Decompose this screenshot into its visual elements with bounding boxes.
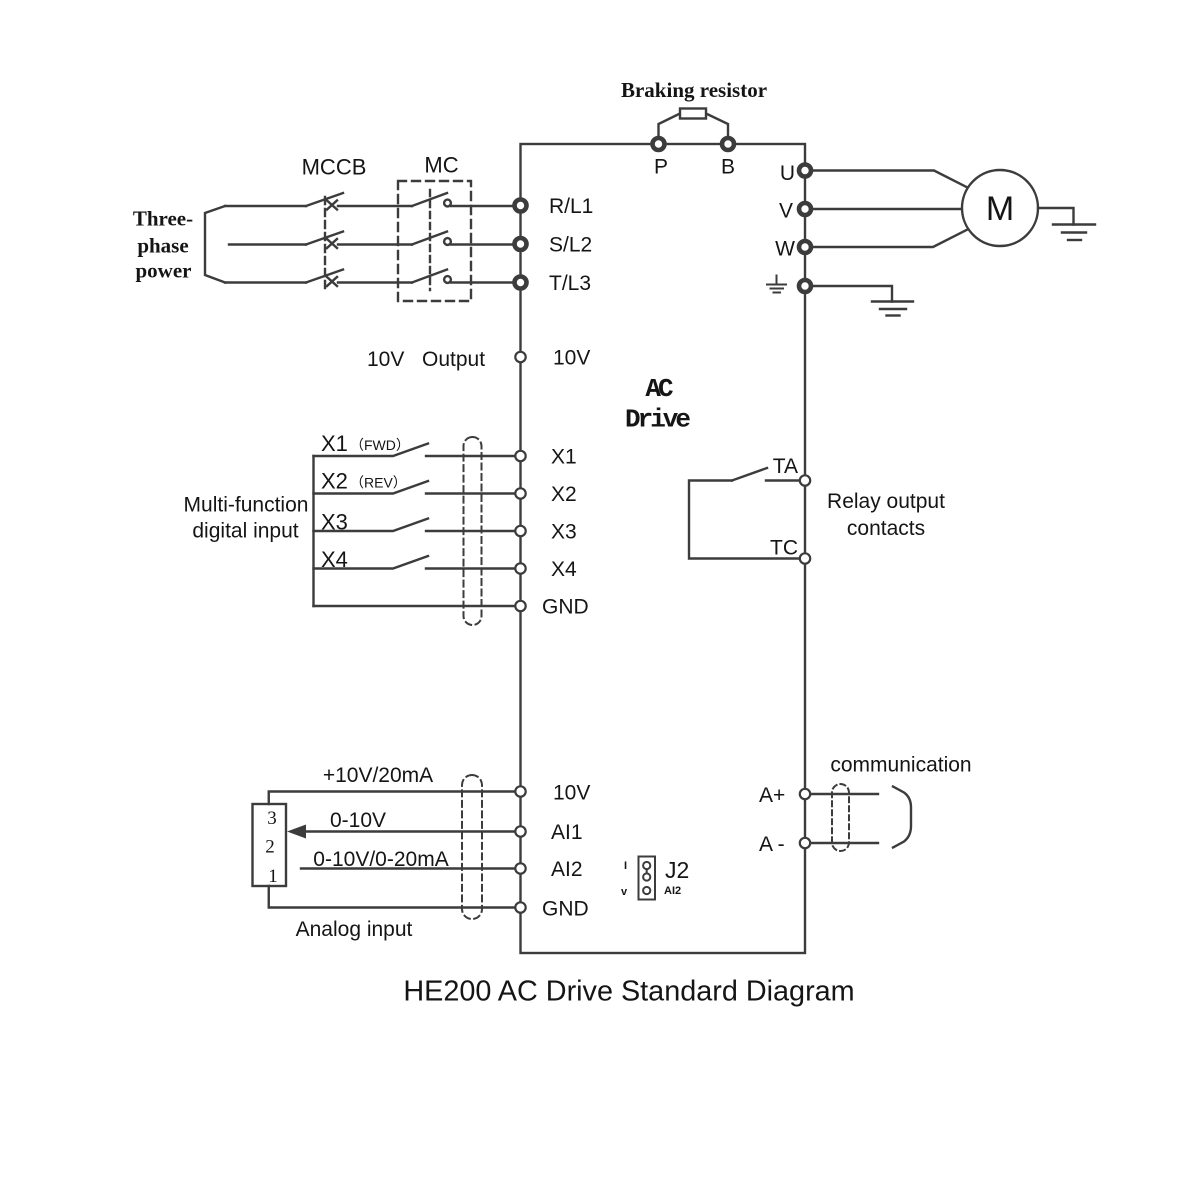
svg-text:T/L3: T/L3	[549, 272, 591, 295]
svg-text:0-10V: 0-10V	[330, 809, 386, 832]
svg-text:S/L2: S/L2	[549, 234, 592, 257]
svg-text:Braking resistor: Braking resistor	[621, 78, 767, 102]
terminal X3	[515, 526, 525, 536]
terminal X2	[515, 488, 525, 498]
terminal A+	[800, 789, 810, 799]
svg-text:I: I	[624, 860, 627, 872]
terminal TA	[800, 475, 810, 485]
svg-text:0-10V/0-20mA: 0-10V/0-20mA	[313, 848, 448, 871]
MC linkage dashed	[429, 190, 431, 290]
svg-text:digital input: digital input	[192, 520, 298, 543]
svg-text:Multi-function: Multi-function	[184, 494, 309, 517]
terminal X4	[515, 563, 525, 573]
svg-text:A -: A -	[759, 833, 785, 856]
svg-text:X4: X4	[551, 558, 577, 581]
potentiometer body	[253, 804, 287, 886]
svg-text:X3: X3	[321, 510, 348, 535]
wire A+	[811, 793, 878, 795]
terminal X1	[515, 451, 525, 461]
svg-text:X3: X3	[551, 521, 577, 544]
svg-text:A+: A+	[759, 784, 785, 807]
svg-text:contacts: contacts	[847, 517, 925, 540]
svg-text:（FWD）: （FWD）	[350, 437, 410, 453]
svg-text:X1: X1	[551, 446, 577, 469]
switch X4	[314, 556, 515, 569]
wire V output	[813, 208, 962, 210]
MCCB linkage dashed	[324, 197, 326, 290]
wire pot bottom to GND	[269, 886, 514, 908]
svg-text:HE200 AC Drive Standard Diagra: HE200 AC Drive Standard Diagram	[403, 976, 854, 1008]
svg-text:MCCB: MCCB	[302, 155, 367, 180]
wire GND digital	[314, 605, 515, 607]
relay loop	[689, 481, 799, 559]
terminal AI2	[515, 863, 525, 873]
svg-text:phase: phase	[137, 234, 188, 258]
svg-text:AI2: AI2	[664, 885, 681, 897]
svg-text:communication: communication	[830, 754, 971, 777]
wire W output	[813, 230, 968, 248]
svg-text:MC: MC	[424, 153, 458, 178]
terminal GND analog	[515, 902, 525, 912]
svg-text:B: B	[721, 156, 735, 179]
contactor MC box dashed	[398, 181, 471, 301]
resistor body	[680, 109, 706, 119]
arrowhead AI1	[287, 825, 306, 839]
contactor MC pole 2	[412, 232, 512, 245]
braking resistor loop	[659, 114, 729, 138]
terminal V	[799, 203, 811, 215]
svg-text:2: 2	[265, 837, 275, 858]
svg-text:W: W	[775, 238, 795, 261]
terminal P	[653, 138, 665, 150]
ground motor	[1053, 225, 1095, 241]
svg-text:X2: X2	[551, 483, 577, 506]
terminal GND digital	[515, 601, 525, 611]
svg-text:Drive: Drive	[625, 405, 690, 435]
wire A-	[811, 842, 878, 844]
svg-text:AI2: AI2	[551, 858, 583, 881]
svg-text:GND: GND	[542, 596, 589, 619]
switch X3	[314, 519, 515, 532]
terminal 10V out	[515, 352, 525, 362]
terminal PE	[799, 280, 811, 292]
terminal TC	[800, 553, 810, 563]
terminal R/L1	[515, 200, 527, 212]
svg-text:Three-: Three-	[133, 207, 193, 231]
svg-text:V: V	[779, 200, 793, 223]
svg-text:10V: 10V	[367, 348, 404, 371]
wire AI1	[305, 830, 514, 832]
svg-text:TC: TC	[770, 537, 798, 560]
terminal T/L3	[515, 277, 527, 289]
breaker MCCB pole 1	[306, 193, 412, 210]
terminal W	[799, 241, 811, 253]
svg-text:10V: 10V	[553, 782, 590, 805]
svg-text:TA: TA	[773, 455, 798, 478]
ground PE external	[872, 302, 913, 316]
breaker MCCB pole 3	[306, 270, 412, 287]
switch X1	[314, 444, 515, 457]
svg-text:R/L1: R/L1	[549, 195, 593, 218]
three-phase bracket	[205, 206, 225, 283]
svg-text:3: 3	[267, 808, 277, 829]
svg-text:10V: 10V	[553, 347, 590, 370]
svg-text:power: power	[136, 259, 192, 283]
svg-text:J2: J2	[665, 857, 689, 883]
wire pot top to 10V	[269, 792, 514, 805]
svg-text:1: 1	[268, 866, 278, 887]
contactor MC pole 3	[412, 270, 512, 283]
shield comm dashed	[832, 784, 849, 851]
relay fixed contact wire	[766, 479, 799, 481]
terminal AI1	[515, 826, 525, 836]
terminal U	[799, 165, 811, 177]
digital input bus	[312, 456, 314, 606]
terminal S/L2	[515, 238, 527, 250]
svg-text:Relay output: Relay output	[827, 490, 945, 513]
terminal 10V analog	[515, 786, 525, 796]
svg-text:Output: Output	[422, 348, 485, 371]
wire PE earth	[813, 286, 892, 302]
shield analog dashed	[462, 775, 482, 919]
svg-text:X1: X1	[321, 431, 348, 456]
svg-text:AI1: AI1	[551, 821, 583, 844]
terminal A-	[800, 838, 810, 848]
jumper J2 block	[639, 857, 656, 900]
terminal B	[722, 138, 734, 150]
breaker MCCB pole 2	[306, 232, 412, 249]
shield digital dashed	[464, 437, 482, 625]
contactor MC pole 1	[412, 193, 512, 206]
svg-text:v: v	[621, 886, 628, 898]
svg-text:X2: X2	[321, 469, 348, 494]
comm bracket curve	[893, 787, 911, 848]
svg-text:+10V/20mA: +10V/20mA	[323, 764, 433, 787]
svg-text:AC: AC	[645, 374, 673, 404]
wire phase S left	[229, 243, 306, 245]
earth symbol at PE terminal	[767, 276, 786, 293]
motor M1	[962, 170, 1038, 246]
AC drive main box	[521, 144, 806, 953]
svg-text:Analog input: Analog input	[296, 918, 413, 941]
wire phase T left	[225, 281, 306, 283]
svg-text:M: M	[986, 190, 1014, 228]
relay switch blade	[732, 468, 767, 481]
svg-text:U: U	[780, 162, 795, 185]
svg-text:GND: GND	[542, 898, 589, 921]
svg-text:P: P	[654, 156, 668, 179]
wire phase R left	[225, 205, 306, 207]
wire U output	[813, 171, 968, 188]
switch X2	[314, 481, 515, 494]
svg-text:X4: X4	[321, 547, 348, 572]
wire motor earth	[1038, 208, 1074, 225]
svg-text:（REV）: （REV）	[350, 475, 407, 491]
wire AI2	[301, 867, 514, 869]
